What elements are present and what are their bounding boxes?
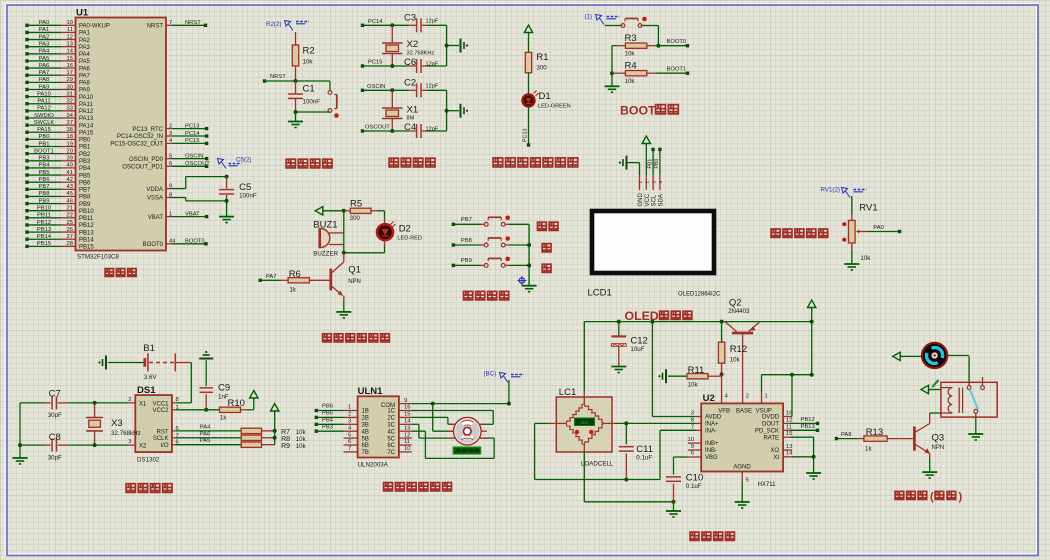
wire C2 to rail bbox=[422, 89, 447, 91]
svg-text:LCD1: LCD1 bbox=[588, 288, 612, 299]
net PA7 wire bbox=[259, 274, 280, 282]
svg-text:PA6: PA6 bbox=[39, 63, 50, 69]
U1 left pin PA6 (16) wire bbox=[25, 63, 90, 72]
resistor R2 bbox=[292, 45, 314, 66]
svg-text:PB1: PB1 bbox=[647, 159, 653, 169]
svg-text:PA3: PA3 bbox=[79, 45, 91, 51]
svg-text:PA10: PA10 bbox=[37, 91, 51, 97]
resistor R1 bbox=[525, 52, 548, 73]
svg-text:U1: U1 bbox=[76, 8, 89, 19]
svg-text:PA7: PA7 bbox=[79, 73, 91, 79]
ULN1 right stub pin 14 bbox=[399, 419, 412, 425]
resistor R5 bbox=[344, 199, 378, 223]
svg-text:PB5: PB5 bbox=[322, 411, 333, 417]
U2 HX711 chip body bbox=[701, 393, 783, 472]
ULN1 stub pin 6 bbox=[344, 439, 358, 445]
wire R1 to D1 bbox=[528, 73, 530, 95]
net OSCIN wire bbox=[361, 84, 416, 92]
wire bottom rail (weigh) bbox=[535, 430, 702, 479]
wire left rail (BOOT) bbox=[612, 46, 617, 87]
U1 left pin PB15 (28) wire bbox=[25, 241, 94, 250]
svg-text:PC13: PC13 bbox=[523, 129, 529, 143]
ground (AGND) bbox=[735, 502, 750, 508]
crystal X1 bbox=[382, 88, 418, 133]
ground (alarm) bbox=[336, 312, 351, 318]
wire R5 to D2 bbox=[378, 211, 385, 224]
caption 主芯片 bbox=[105, 269, 113, 277]
svg-text:R3: R3 bbox=[625, 33, 637, 44]
ULN1 right stub pin 13 bbox=[399, 425, 412, 431]
U1 left pin BOOT1 (20) wire bbox=[25, 148, 91, 157]
wire to ground (XI) bbox=[813, 457, 815, 473]
LED D1 LED-GREEN bbox=[523, 91, 571, 110]
svg-text:LC1: LC1 bbox=[559, 387, 576, 398]
svg-text:NPN: NPN bbox=[348, 279, 361, 285]
svg-text:12: 12 bbox=[404, 432, 410, 438]
DS1 pin numbers bbox=[128, 397, 178, 446]
wire NRST to button top bbox=[296, 81, 331, 91]
svg-text:PB0: PB0 bbox=[79, 138, 91, 144]
net PB13 wire (PD_SCK) bbox=[783, 424, 819, 432]
ground terminal (R11) bbox=[658, 369, 666, 383]
wire power to R1 bbox=[528, 35, 530, 52]
ULN1 right stub pin 9 bbox=[399, 398, 412, 404]
U1 left pin PB13 (26) wire bbox=[25, 227, 94, 236]
svg-text:28: 28 bbox=[67, 241, 73, 247]
push button (PB7) bbox=[484, 222, 488, 226]
net NRST wire bbox=[263, 74, 296, 83]
svg-text:10k: 10k bbox=[296, 429, 307, 436]
wire right rail (X2 group) bbox=[446, 25, 448, 66]
wire X2 row bbox=[20, 444, 135, 446]
svg-text:PA9: PA9 bbox=[39, 84, 50, 90]
svg-text:C3: C3 bbox=[404, 13, 416, 24]
caption 继电器(水泵) bbox=[895, 491, 962, 503]
svg-text:11: 11 bbox=[786, 424, 792, 430]
net BOOT1 wire bbox=[656, 67, 690, 75]
U1 left pin PB5 (41) wire bbox=[25, 170, 91, 179]
wire SCLK row bbox=[172, 431, 241, 438]
svg-text:2: 2 bbox=[128, 397, 131, 403]
U2 top pin numbers bbox=[725, 394, 768, 400]
svg-text:PB3: PB3 bbox=[39, 156, 50, 162]
transistor Q2 2N4403 bbox=[725, 298, 760, 404]
blue origin marker bbox=[517, 276, 526, 285]
svg-text:5B: 5B bbox=[362, 436, 369, 442]
svg-text:8: 8 bbox=[176, 397, 179, 403]
stepper motor bbox=[448, 417, 487, 445]
svg-text:R6: R6 bbox=[289, 269, 301, 280]
svg-text:7: 7 bbox=[348, 446, 351, 452]
resistor R3 bbox=[617, 33, 656, 58]
svg-text:PA15: PA15 bbox=[37, 127, 51, 133]
wire top rail (weigh) bbox=[584, 321, 811, 323]
node COM junction 2 bbox=[507, 402, 511, 406]
node C1 bottom junction bbox=[294, 110, 298, 114]
svg-text:12: 12 bbox=[67, 34, 73, 40]
U2 stub INB+ bbox=[688, 442, 701, 444]
ground (reset) bbox=[288, 122, 303, 128]
wire relay NO contact to ground bbox=[975, 413, 977, 434]
svg-text:INB-: INB- bbox=[705, 448, 717, 454]
wire power to rail bbox=[811, 310, 813, 322]
svg-text:10: 10 bbox=[404, 446, 410, 452]
caption 减 bbox=[542, 264, 551, 272]
wire C6 to rail bbox=[422, 65, 447, 67]
caption 称重模块 bbox=[690, 532, 699, 540]
svg-text:BOOT1: BOOT1 bbox=[34, 148, 54, 154]
net BOOT0 wire bbox=[656, 39, 690, 47]
caption 声光报警电路 bbox=[323, 334, 332, 342]
wire key PB9 to rail bbox=[505, 264, 529, 266]
transistor Q3 NPN bbox=[914, 424, 944, 454]
svg-text:LOADCELL: LOADCELL bbox=[581, 461, 614, 468]
svg-text:31: 31 bbox=[67, 91, 73, 97]
U1 right pin PC15-OSC32_OUT (4) wire to net PC15 bbox=[110, 138, 208, 147]
U1 right pin OSCOUT_PD1 (6) wire to net OSCOUT bbox=[122, 161, 210, 170]
power terminal (OLED VCC) bbox=[642, 136, 650, 146]
svg-text:3.6V: 3.6V bbox=[144, 374, 158, 381]
U2 right pin numbers bbox=[786, 411, 793, 457]
svg-text:20: 20 bbox=[67, 148, 73, 154]
svg-text:14: 14 bbox=[404, 419, 411, 425]
node rail x AVDD bbox=[650, 320, 654, 324]
U1 right pin PC14-OSC32_IN (3) wire to net PC14 bbox=[117, 131, 208, 140]
node VSUP/right rail junction bbox=[810, 373, 814, 377]
wire OLED GND pin bbox=[628, 163, 640, 190]
ULN1 right stub pin 12 bbox=[399, 432, 412, 438]
node left rail junction bbox=[18, 443, 22, 447]
svg-text:PB10: PB10 bbox=[37, 206, 51, 212]
svg-text:DOUT: DOUT bbox=[762, 422, 779, 428]
power terminal (pump motor) bbox=[893, 352, 903, 360]
svg-text:PC15: PC15 bbox=[185, 138, 200, 144]
resistor R7 bbox=[241, 428, 306, 436]
node collector junction bbox=[342, 251, 346, 255]
ground terminal (OLED GND) bbox=[619, 156, 627, 170]
power terminal (LED circuit) bbox=[524, 25, 532, 35]
svg-text:BOOT: BOOT bbox=[620, 104, 656, 118]
crystal X3 bbox=[86, 401, 141, 447]
wire keys rail bbox=[528, 224, 530, 285]
U1 pin VDDA (9) wire bbox=[146, 177, 226, 193]
U1 left pin PB0 (18) wire bbox=[25, 134, 91, 143]
svg-text:43: 43 bbox=[67, 184, 73, 190]
net PB5 wire to ULN1 pin 2 bbox=[315, 411, 358, 420]
svg-text:10uF: 10uF bbox=[630, 346, 644, 353]
svg-text:PB0: PB0 bbox=[39, 134, 50, 140]
ground terminal (X2) bbox=[461, 39, 469, 53]
svg-text:16: 16 bbox=[404, 405, 410, 411]
wire BC to COM rail bbox=[508, 380, 510, 404]
svg-text:BOOT0: BOOT0 bbox=[143, 242, 164, 248]
svg-text:0.1uF: 0.1uF bbox=[636, 455, 652, 462]
push button (PB8) bbox=[484, 243, 488, 247]
svg-text:17: 17 bbox=[67, 70, 73, 76]
node R4 left junction bbox=[610, 71, 614, 75]
svg-text:10: 10 bbox=[688, 437, 694, 443]
svg-text:STM32F103C8: STM32F103C8 bbox=[77, 254, 120, 261]
svg-text:5C: 5C bbox=[387, 436, 395, 442]
power terminal (alarm) bbox=[315, 207, 325, 215]
svg-text:INB+: INB+ bbox=[705, 441, 719, 447]
ground terminal (C9 top) bbox=[199, 351, 213, 359]
push button (BOOT) bbox=[621, 24, 625, 28]
svg-text:PA9: PA9 bbox=[79, 88, 91, 94]
resistor R6 bbox=[280, 269, 331, 294]
wire COM to motor left bbox=[433, 404, 454, 432]
wire right rail (X1 group) bbox=[446, 90, 448, 131]
svg-text:PD_SCK: PD_SCK bbox=[755, 429, 779, 435]
svg-text:PB11: PB11 bbox=[37, 213, 51, 219]
svg-text:39: 39 bbox=[67, 156, 73, 162]
svg-text:VCC1: VCC1 bbox=[152, 401, 169, 407]
svg-text:R9: R9 bbox=[281, 443, 290, 450]
buzzer BUZ1 bbox=[313, 220, 344, 258]
svg-text:300: 300 bbox=[350, 215, 361, 222]
svg-text:PA11: PA11 bbox=[37, 99, 50, 105]
wire COM rail bbox=[412, 403, 509, 405]
svg-text:ULN2003A: ULN2003A bbox=[358, 462, 389, 469]
svg-text:B1: B1 bbox=[143, 343, 155, 354]
svg-text:PB13: PB13 bbox=[79, 230, 94, 236]
svg-text:15: 15 bbox=[404, 412, 410, 418]
svg-text:PC13_RTC: PC13_RTC bbox=[132, 127, 163, 133]
ground (weigh bottom) bbox=[666, 511, 681, 517]
svg-text:5: 5 bbox=[746, 478, 749, 484]
svg-text:32.768KHz: 32.768KHz bbox=[407, 50, 435, 56]
svg-text:PA6: PA6 bbox=[200, 431, 211, 437]
svg-text:R12: R12 bbox=[730, 344, 747, 355]
svg-text:PB4: PB4 bbox=[39, 163, 51, 169]
svg-text:VSSA: VSSA bbox=[147, 196, 163, 202]
ground (C5) bbox=[219, 217, 234, 223]
wire VBG to C10 bbox=[674, 456, 702, 458]
svg-text:10: 10 bbox=[67, 20, 73, 26]
svg-text:30pF: 30pF bbox=[48, 455, 62, 462]
wire key PB8 to rail bbox=[505, 244, 529, 246]
node C11 bottom junction bbox=[624, 478, 628, 482]
wire R10 to power bbox=[253, 401, 255, 410]
svg-text:RST: RST bbox=[157, 429, 169, 435]
svg-text:1B: 1B bbox=[362, 409, 369, 415]
svg-text:PA10: PA10 bbox=[79, 95, 94, 101]
svg-text:D1: D1 bbox=[539, 91, 551, 102]
svg-text:LED-GREEN: LED-GREEN bbox=[538, 104, 571, 110]
svg-text:BUZ1: BUZ1 bbox=[313, 220, 337, 231]
ULN1 right stub pin 15 bbox=[399, 412, 412, 418]
resistor R13 bbox=[858, 427, 913, 453]
node INA+/C11 junction bbox=[624, 421, 628, 425]
svg-text:X3: X3 bbox=[111, 418, 123, 429]
svg-text:18: 18 bbox=[67, 134, 73, 140]
svg-text:(BC): (BC) bbox=[484, 371, 497, 378]
svg-text:44: 44 bbox=[169, 239, 176, 245]
blue marker R2(2) bbox=[266, 21, 309, 31]
capacitor C10 bbox=[666, 457, 703, 502]
node rail junction (X2) bbox=[445, 44, 449, 48]
svg-text:SDA: SDA bbox=[658, 194, 664, 206]
svg-text:10k: 10k bbox=[688, 382, 699, 389]
ground (C12) bbox=[611, 367, 626, 373]
U1 right pin OSCIN_PD0 (5) wire to net OSCIN bbox=[129, 153, 208, 162]
svg-text:1k: 1k bbox=[220, 415, 227, 422]
U1 left pin PA7 (17) wire bbox=[25, 70, 90, 79]
wire LC1 bottom bbox=[584, 445, 673, 502]
svg-text:PB5: PB5 bbox=[39, 170, 50, 176]
wire C4 to rail bbox=[422, 130, 447, 132]
svg-text:C4: C4 bbox=[404, 122, 416, 133]
U1 left pin PA15 (38) wire bbox=[25, 127, 94, 136]
wire relay switch common from motor bbox=[968, 356, 970, 385]
svg-text:(1): (1) bbox=[585, 14, 593, 21]
svg-text:SCL: SCL bbox=[652, 194, 658, 206]
svg-text:PB9: PB9 bbox=[39, 198, 50, 204]
LED D2 LED-RED bbox=[377, 222, 422, 242]
svg-text:300: 300 bbox=[536, 65, 547, 72]
capacitor C9 bbox=[200, 360, 231, 410]
U1 left pin SWCLK (37) wire bbox=[25, 120, 94, 129]
svg-text:8M: 8M bbox=[407, 115, 415, 121]
capacitor C1 bbox=[288, 81, 320, 112]
U1 pin VSSA (8) wire bbox=[147, 192, 227, 201]
svg-text:PA4: PA4 bbox=[200, 424, 211, 430]
U2 stub INB- bbox=[688, 449, 701, 451]
svg-text:100nF: 100nF bbox=[239, 193, 257, 200]
svg-text:VSUP: VSUP bbox=[756, 409, 772, 415]
wire left rail (clock) bbox=[19, 403, 21, 458]
svg-text:PB4: PB4 bbox=[79, 166, 91, 172]
wire 3C to motor left-bottom bbox=[412, 424, 456, 438]
wire Q3 emitter to ground bbox=[929, 454, 931, 473]
svg-text:OSCOUT: OSCOUT bbox=[185, 161, 210, 167]
wire power to pump motor bbox=[902, 355, 921, 357]
svg-text:INA+: INA+ bbox=[705, 422, 719, 428]
wire buzzer vertical bbox=[343, 211, 345, 253]
svg-text:R13: R13 bbox=[866, 427, 883, 438]
svg-text:PB3: PB3 bbox=[79, 159, 91, 165]
svg-text:R5: R5 bbox=[350, 199, 362, 210]
svg-text:R2: R2 bbox=[303, 46, 315, 57]
svg-text:OSCIN_PD0: OSCIN_PD0 bbox=[129, 157, 164, 163]
caption BOOT电路 bbox=[620, 104, 678, 118]
svg-text:X1: X1 bbox=[407, 105, 419, 116]
node VCC2/C9 junction bbox=[204, 408, 208, 412]
U1 left pin PB3 (39) wire bbox=[25, 156, 91, 165]
wire RV1 to ground bbox=[851, 243, 853, 264]
net PB1 wire (OLED SCL) bbox=[647, 148, 655, 190]
svg-text:PB4: PB4 bbox=[322, 418, 334, 424]
svg-text:C5(2): C5(2) bbox=[236, 157, 251, 164]
svg-text:PA1: PA1 bbox=[39, 27, 50, 33]
svg-text:OSCOUT_PD1: OSCOUT_PD1 bbox=[122, 165, 163, 171]
capacitor C7 bbox=[48, 389, 62, 420]
svg-text:HX711: HX711 bbox=[758, 482, 777, 488]
wire ground drop (weigh bottom) bbox=[673, 502, 675, 511]
svg-text:3: 3 bbox=[651, 181, 656, 184]
svg-text:VBAT: VBAT bbox=[148, 215, 164, 221]
net OSCOUT wire bbox=[361, 125, 416, 133]
U1 left pin PB14 (27) wire bbox=[25, 234, 94, 243]
svg-text:PA0-WKUP: PA0-WKUP bbox=[79, 24, 110, 30]
svg-text:14: 14 bbox=[786, 451, 793, 457]
svg-text:PB7: PB7 bbox=[39, 184, 50, 190]
svg-text:X2: X2 bbox=[139, 444, 147, 450]
U1 left pin PA10 (31) wire bbox=[25, 91, 94, 100]
U1 left pin PA2 (12) wire bbox=[25, 34, 90, 43]
wire C5 to ground bbox=[226, 201, 228, 217]
blue marker (BC) bbox=[484, 371, 525, 383]
svg-text:PA4: PA4 bbox=[39, 49, 50, 55]
wire VSUP rail bbox=[762, 322, 812, 404]
svg-text:7: 7 bbox=[691, 424, 694, 430]
blue marker RV1(2) bbox=[821, 187, 867, 198]
svg-text:32: 32 bbox=[67, 99, 73, 105]
transistor Q1 NPN bbox=[331, 253, 361, 300]
svg-text:D2: D2 bbox=[399, 224, 411, 235]
svg-text:R11: R11 bbox=[688, 365, 705, 376]
svg-text:12pF: 12pF bbox=[426, 83, 439, 89]
svg-text:NPN: NPN bbox=[932, 445, 945, 451]
svg-text:10k: 10k bbox=[730, 357, 741, 364]
svg-text:PA11: PA11 bbox=[79, 102, 93, 108]
svg-text:SCLK: SCLK bbox=[153, 436, 169, 442]
node rail x C12 bbox=[617, 320, 621, 324]
svg-text:VCC: VCC bbox=[645, 193, 651, 206]
caption OLED显示屏 bbox=[625, 309, 692, 323]
wire LC1 left loop bbox=[535, 423, 567, 479]
svg-text:7B: 7B bbox=[362, 450, 369, 456]
svg-text:PB12: PB12 bbox=[37, 220, 51, 226]
svg-text:C9: C9 bbox=[218, 383, 230, 394]
svg-text:PB10: PB10 bbox=[79, 209, 94, 215]
svg-text:OSCOUT: OSCOUT bbox=[365, 125, 390, 131]
svg-text:2: 2 bbox=[169, 123, 172, 129]
svg-text:R7: R7 bbox=[281, 429, 290, 436]
svg-text:PA12: PA12 bbox=[37, 106, 51, 112]
svg-text:10k: 10k bbox=[303, 59, 314, 66]
svg-text:26: 26 bbox=[67, 227, 73, 233]
svg-text:I/O: I/O bbox=[160, 443, 168, 449]
node rail junction PB9 bbox=[527, 263, 531, 267]
svg-text:9: 9 bbox=[404, 398, 407, 404]
svg-text:R2(2): R2(2) bbox=[266, 21, 281, 28]
svg-text:OLED12864I2C: OLED12864I2C bbox=[678, 292, 721, 298]
wire pump motor to relay bbox=[948, 355, 970, 357]
wire to ground terminal (X1) bbox=[447, 110, 459, 112]
svg-text:BOOT0: BOOT0 bbox=[667, 39, 687, 45]
U1 left pin PA5 (15) wire bbox=[25, 56, 90, 65]
svg-text:PA14: PA14 bbox=[79, 123, 94, 129]
power terminal (R10) bbox=[250, 391, 258, 401]
svg-text:PA1: PA1 bbox=[79, 31, 91, 37]
svg-text:SWDIO: SWDIO bbox=[34, 113, 54, 119]
svg-text:PB8: PB8 bbox=[79, 195, 91, 201]
ULN1 stub pin 5 bbox=[344, 432, 358, 438]
wire RST row bbox=[172, 424, 241, 431]
svg-text:6: 6 bbox=[348, 439, 351, 445]
svg-text:PA0: PA0 bbox=[873, 225, 884, 231]
ground (keys) bbox=[522, 286, 537, 292]
svg-text:1: 1 bbox=[765, 394, 768, 400]
svg-text:3: 3 bbox=[128, 439, 131, 445]
probe marker (coil) bbox=[932, 380, 939, 388]
relay RL1 bbox=[941, 377, 997, 417]
wire to ground terminal (X2) bbox=[447, 45, 459, 47]
terminal PC13 bbox=[527, 143, 530, 146]
wire pullup rail (clock) bbox=[274, 414, 276, 445]
svg-text:7C: 7C bbox=[387, 450, 395, 456]
